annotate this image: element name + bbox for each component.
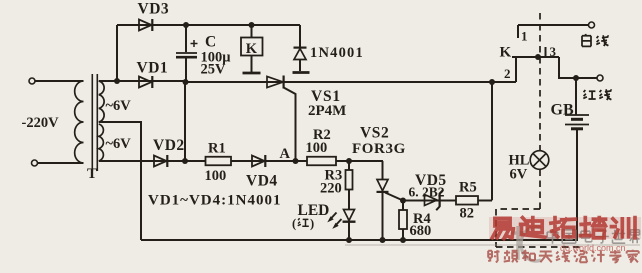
- svg-text:6. 2B2: 6. 2B2: [409, 185, 445, 200]
- VS2 gate wire: [385, 193, 403, 201]
- terminal: AC input bottom: [32, 160, 38, 166]
- wire: vertical feed from secondary top to VD3 rail: [116, 25, 118, 82]
- node: pin2 junction: [489, 79, 495, 85]
- svg-text:220: 220: [320, 181, 342, 197]
- resistor R2 100: [307, 157, 336, 166]
- contact pin 3 tick: [545, 47, 547, 57]
- relay contact K pin 1 line to white wire: [518, 24, 591, 26]
- node: K coil top on rail: [249, 22, 255, 28]
- svg-text:): ): [310, 217, 314, 231]
- svg-text:1N4001: 1N4001: [310, 45, 364, 61]
- svg-text:VD2: VD2: [153, 137, 185, 154]
- svg-text:R5: R5: [459, 180, 477, 196]
- watermark gray text 中国电子世界: [547, 229, 639, 243]
- resistor R3 220 (vertical): [348, 161, 350, 170]
- svg-text:~6V: ~6V: [106, 98, 132, 114]
- node: VS2 gate node: [400, 198, 406, 204]
- svg-text:VD4: VD4: [246, 173, 278, 190]
- svg-text:R1: R1: [208, 141, 226, 157]
- relay coil K bottom bar (to common): [243, 72, 261, 75]
- watermark red title 易迪拓培训: [492, 218, 635, 239]
- dashed flashlight link lower: [539, 170, 541, 210]
- resistor R4 680 (vertical): [402, 201, 404, 211]
- wire: center tap of secondary: [99, 122, 141, 240]
- flyback diode 1N4001 across relay: [299, 25, 301, 47]
- battery GB: [575, 78, 577, 115]
- relay contact arm: [512, 56, 559, 58]
- svg-text:VD3: VD3: [138, 1, 170, 18]
- contact pin 2 tick: [515, 57, 517, 82]
- label white wire CJK: [582, 34, 609, 46]
- terminal: white wire: [589, 22, 595, 28]
- svg-text:VD1: VD1: [137, 60, 169, 77]
- dashed plug boundary top: [496, 208, 540, 210]
- svg-text:(: (: [292, 217, 296, 231]
- node A: [293, 158, 299, 164]
- svg-text:3: 3: [550, 44, 557, 59]
- node: VS2 cathode on common rail: [380, 237, 386, 243]
- label red wire CJK: [583, 89, 611, 100]
- flyback diode bottom bar (to common): [293, 71, 310, 74]
- wire: trigger row y=161: [154, 160, 349, 162]
- diode VD1: [139, 77, 152, 88]
- node: junction secondary-top/VD3: [114, 78, 120, 84]
- diode VD2: [154, 156, 167, 167]
- svg-text:25V: 25V: [201, 62, 227, 78]
- wire: top rail from VD3 feed to flyback corner: [117, 24, 300, 26]
- lamp HL 6V: [530, 151, 549, 170]
- svg-text:GB: GB: [551, 102, 574, 119]
- node: cap bottom on DC rail: [183, 79, 189, 85]
- svg-text:100: 100: [306, 140, 328, 156]
- svg-text:K: K: [500, 45, 512, 61]
- svg-text:~6V: ~6V: [106, 136, 132, 152]
- svg-text:6V: 6V: [510, 167, 528, 183]
- wire: pin 3 to red wire and battery: [559, 57, 599, 78]
- svg-text:2: 2: [504, 66, 511, 81]
- terminal: AC input top: [29, 78, 35, 84]
- resistor R1 100: [206, 157, 232, 166]
- dashed flashlight link upper: [539, 13, 541, 151]
- zener diode VD5 6.2B2: [425, 195, 438, 206]
- relay coil K: [251, 25, 253, 38]
- svg-text:-220V: -220V: [22, 115, 60, 131]
- polarity plus of C: [191, 43, 198, 45]
- svg-text:K: K: [246, 41, 258, 57]
- node: R2/R3 junction: [346, 158, 352, 164]
- svg-text:680: 680: [410, 223, 432, 239]
- resistor R5 82: [456, 196, 478, 205]
- svg-text:A: A: [280, 146, 291, 162]
- LED emission arrows: [330, 213, 337, 220]
- svg-text:VS2: VS2: [360, 125, 389, 142]
- svg-text:do.world.com.cn: do.world.com.cn: [560, 243, 626, 253]
- transformer T secondary winding upper ~6V: [99, 81, 104, 122]
- node: VD2 cathode junction to DC rail bridge: [182, 158, 188, 164]
- diode VD3: [139, 20, 152, 31]
- svg-text:100: 100: [205, 168, 227, 184]
- capacitor C 100u/25V: [185, 25, 187, 52]
- diode VD4: [252, 156, 265, 167]
- node: cap top on rail: [183, 22, 189, 28]
- transformer T primary winding: [75, 81, 84, 163]
- svg-text:2P4M: 2P4M: [308, 103, 346, 119]
- wire: main DC rail y=82: [99, 80, 186, 82]
- wire: bridge from DC rail to trigger row: [184, 82, 186, 161]
- terminal: red wire: [597, 75, 603, 81]
- watermark red underlay: [489, 217, 641, 239]
- LED (red) indicator: [344, 210, 355, 221]
- svg-text:VD1~VD4:1N4001: VD1~VD4:1N4001: [148, 193, 281, 209]
- watermark gray logo: [511, 226, 541, 261]
- dashed plug boundary bottom: [496, 246, 584, 248]
- watermark red subtitle 射频和天线设计专家: [345, 244, 640, 246]
- transformer T primary top lead: [34, 80, 84, 82]
- svg-text:FOR3G: FOR3G: [352, 141, 406, 157]
- svg-text:C: C: [205, 34, 216, 51]
- wire: bottom common rail: [141, 239, 578, 241]
- wire: gate row y=200.5: [403, 200, 456, 202]
- node: LED to common rail: [346, 237, 352, 243]
- svg-text:82: 82: [460, 206, 475, 222]
- node: battery junction: [573, 75, 579, 81]
- transformer T primary bottom lead: [37, 162, 84, 164]
- svg-text:T: T: [87, 166, 97, 182]
- thyristor VS2 FOR3G: [382, 161, 384, 180]
- thyristor VS1 2P4M on DC rail: [267, 77, 283, 88]
- wire: secondary bottom to VD2: [99, 160, 154, 162]
- transformer T secondary winding lower ~6V: [99, 124, 104, 161]
- dashed plug boundary left: [495, 209, 497, 247]
- wire: R5 up to relay common: [491, 82, 493, 200]
- svg-text:1: 1: [521, 29, 528, 44]
- VS1 gate wire down to node A: [284, 88, 296, 162]
- transformer T core: [91, 74, 93, 171]
